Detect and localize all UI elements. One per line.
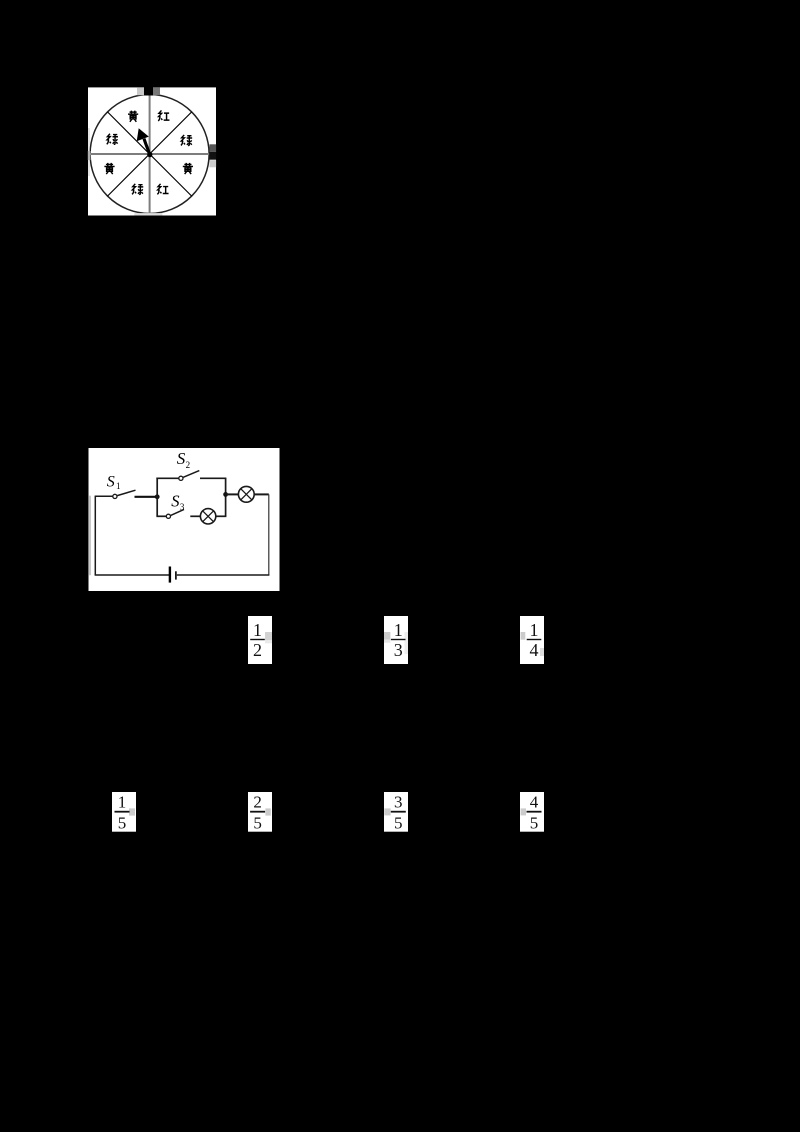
svg-text:1: 1 bbox=[116, 481, 121, 491]
wire top branch left bbox=[156, 477, 178, 479]
label lv bottom-left sector bbox=[132, 184, 143, 195]
label lv left-upper sector bbox=[107, 134, 118, 145]
wire bottom left segment bbox=[95, 574, 169, 576]
wire right vertical bbox=[268, 494, 270, 575]
fraction card 3/5 bbox=[384, 792, 408, 832]
svg-text:S: S bbox=[171, 492, 179, 511]
handle top gray bbox=[153, 87, 160, 95]
fraction card 1/5 bbox=[112, 792, 136, 832]
battery short plate bbox=[175, 571, 177, 579]
svg-text:1: 1 bbox=[530, 620, 539, 640]
svg-text:5: 5 bbox=[253, 813, 262, 832]
switch S2 lever bbox=[183, 471, 199, 478]
svg-text:4: 4 bbox=[530, 640, 539, 660]
node A junction bbox=[155, 494, 160, 499]
svg-text:S: S bbox=[107, 474, 115, 491]
switch S1 contact bbox=[113, 494, 117, 498]
svg-text:4: 4 bbox=[530, 793, 539, 812]
wire S3 to lamp L1 bbox=[190, 515, 200, 517]
wire S1 to node A bbox=[135, 496, 158, 498]
fraction card 2/5 bbox=[248, 792, 272, 832]
node B junction bbox=[223, 492, 228, 497]
spinner diagonal NW-SE bbox=[108, 112, 192, 196]
lamp L2 bbox=[238, 486, 254, 502]
wire lamp L1 to right vertical bbox=[216, 515, 227, 517]
handle right light bbox=[210, 160, 217, 167]
handle left smudge strip bbox=[88, 128, 90, 176]
wire top-left to S1 bbox=[95, 495, 113, 497]
spinner wheel circle bbox=[90, 95, 209, 214]
label hong bottom-right sector bbox=[157, 184, 168, 195]
gray artifact strip bbox=[89, 496, 91, 576]
svg-text:2: 2 bbox=[253, 793, 262, 812]
wire top branch right bbox=[200, 477, 226, 479]
switch S2 contact bbox=[179, 476, 183, 480]
switch S3 lever bbox=[171, 509, 184, 515]
circuit white panel bbox=[89, 448, 280, 591]
label huang top-left sector bbox=[128, 111, 138, 122]
spinner white panel bbox=[88, 87, 216, 215]
wire parallel right vertical bbox=[225, 478, 227, 516]
fraction card 1/3 bbox=[384, 616, 408, 664]
label lv right-upper sector bbox=[181, 135, 192, 146]
wire bottom branch left bbox=[156, 515, 166, 517]
spinner horizontal diameter bbox=[90, 153, 209, 155]
svg-text:5: 5 bbox=[394, 813, 403, 832]
wire bottom right segment bbox=[177, 574, 270, 576]
svg-text:3: 3 bbox=[180, 502, 185, 512]
wire lamp L2 to right edge bbox=[254, 493, 269, 495]
fraction card 1/2 bbox=[248, 616, 272, 664]
spinner diagonal NE-SW bbox=[108, 112, 192, 196]
fraction card 4/5 bbox=[520, 792, 544, 832]
svg-text:1: 1 bbox=[253, 620, 262, 640]
svg-text:5: 5 bbox=[118, 813, 127, 832]
handle top black bbox=[144, 87, 153, 96]
handle right dark bbox=[210, 144, 217, 152]
wire left vertical bbox=[94, 496, 96, 575]
switch S3 contact bbox=[166, 514, 170, 518]
svg-text:1: 1 bbox=[394, 620, 403, 640]
lamp L1 bbox=[200, 509, 215, 524]
spinner pointer arrow bbox=[137, 128, 153, 157]
handle right black bbox=[210, 152, 217, 160]
svg-text:2: 2 bbox=[186, 460, 191, 470]
wire parallel left vertical bbox=[156, 478, 158, 517]
svg-text:2: 2 bbox=[253, 640, 262, 660]
battery long plate bbox=[169, 567, 171, 583]
wire node B to lamp L2 bbox=[226, 493, 239, 495]
switch S1 lever bbox=[117, 490, 135, 495]
svg-text:1: 1 bbox=[118, 793, 127, 812]
fraction card 1/4 bbox=[520, 616, 544, 664]
handle top light bbox=[137, 87, 144, 95]
handle bottom light bar bbox=[134, 213, 162, 215]
label huang left-lower sector bbox=[104, 163, 114, 174]
label huang right-lower sector bbox=[183, 163, 193, 174]
svg-text:3: 3 bbox=[394, 640, 403, 660]
spinner vertical diameter bbox=[149, 95, 151, 214]
svg-text:S: S bbox=[177, 449, 186, 468]
handle left mid square bbox=[88, 151, 91, 160]
label hong top-right sector bbox=[158, 110, 169, 121]
svg-text:3: 3 bbox=[394, 793, 403, 812]
svg-text:5: 5 bbox=[530, 813, 539, 832]
